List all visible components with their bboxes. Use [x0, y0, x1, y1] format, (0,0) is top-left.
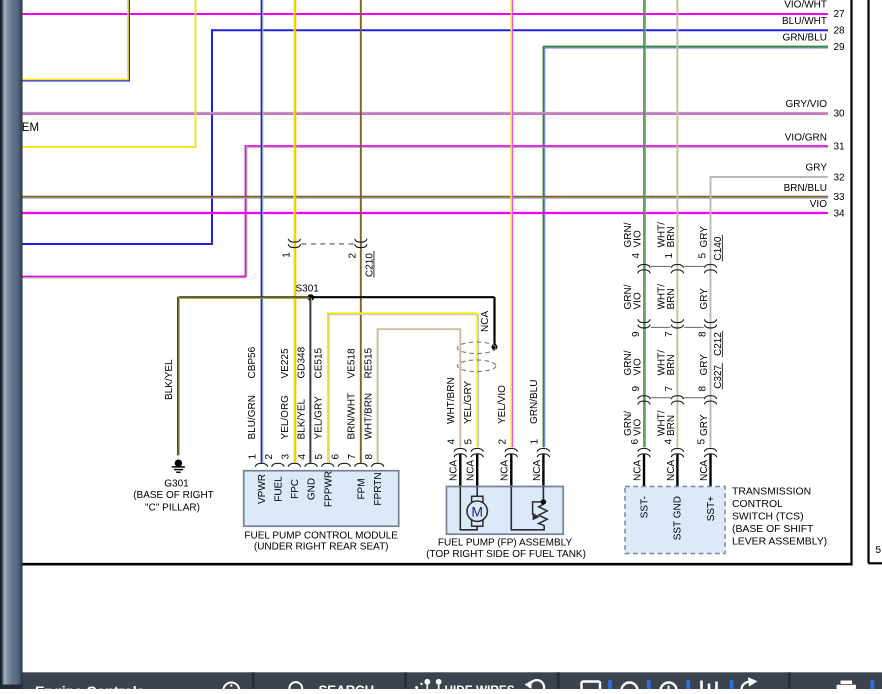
svg-text:M: M	[471, 503, 483, 519]
toolbar blue separator right edge	[871, 680, 875, 689]
wire BLK/YEL S301 to G301	[164, 297, 311, 456]
svg-text:1: 1	[664, 253, 675, 259]
svg-text:HIDE WIRES: HIDE WIRES	[445, 683, 515, 689]
svg-text:SWITCH (TCS): SWITCH (TCS)	[732, 512, 804, 523]
toolbar divider 1	[252, 672, 255, 689]
svg-text:BRN: BRN	[666, 288, 677, 309]
svg-text:4: 4	[297, 454, 308, 460]
C212-C327 segment labels	[623, 350, 710, 376]
fuel pump connector arcs, stubs, pins	[454, 448, 549, 487]
toolbar divider 2	[404, 672, 407, 689]
left scrollbar column	[0, 0, 23, 689]
svg-text:1: 1	[281, 252, 292, 258]
wire BLU/WHT circuit 28	[22, 16, 845, 245]
svg-text:2: 2	[348, 253, 359, 259]
svg-text:S301: S301	[296, 284, 320, 295]
svg-text:NCA: NCA	[500, 460, 511, 481]
wire YEL/GRY CE515 module pin 5 to FP pin 5	[327, 313, 479, 463]
wire VIO circuit 34	[22, 199, 845, 220]
fuel pump wire labels	[446, 377, 540, 424]
svg-text:4: 4	[447, 439, 458, 445]
svg-text:G301: G301	[164, 479, 189, 490]
svg-text:FPC: FPC	[290, 479, 301, 499]
transmission control switch (TCS) box	[625, 487, 725, 554]
svg-text:GRY: GRY	[699, 354, 710, 376]
wire yellow/blue pair upper-left L	[22, 0, 130, 81]
svg-text:VIO/WHT: VIO/WHT	[784, 0, 827, 11]
toolbar label Engine Controls	[35, 684, 145, 694]
wire GRY to TCS pin 5	[710, 176, 712, 447]
svg-text:NCA: NCA	[532, 460, 543, 481]
toolbar divider 3	[557, 672, 560, 689]
svg-text:30: 30	[834, 109, 846, 120]
svg-text:BLU/GRN: BLU/GRN	[247, 395, 258, 439]
svg-text:4: 4	[664, 439, 675, 445]
svg-text:GRY: GRY	[699, 226, 710, 248]
svg-text:VIO: VIO	[810, 199, 827, 210]
svg-text:9: 9	[631, 386, 642, 392]
svg-text:SST-: SST-	[639, 496, 650, 518]
connector C327	[631, 363, 724, 405]
svg-text:VIO/GRN: VIO/GRN	[785, 133, 827, 144]
svg-text:VPWR: VPWR	[257, 474, 268, 504]
svg-text:BLK/YEL: BLK/YEL	[297, 398, 308, 439]
svg-text:GRY: GRY	[806, 163, 828, 174]
wire GRN/VIO to TCS pin 6	[644, 0, 645, 447]
toolbar hide-wires icon	[415, 679, 442, 689]
svg-text:BLU/WHT: BLU/WHT	[782, 16, 827, 27]
toolbar undo icon	[525, 680, 545, 694]
svg-text:32: 32	[834, 173, 846, 184]
svg-text:(TOP RIGHT SIDE OF FUEL TANK): (TOP RIGHT SIDE OF FUEL TANK)	[426, 549, 586, 560]
svg-text:EM: EM	[22, 122, 39, 134]
wire YEL/ORG VE225 to module pin 3 via C210 pin 1	[294, 0, 295, 463]
svg-text:GRN/BLU: GRN/BLU	[529, 380, 540, 424]
svg-text:27: 27	[834, 9, 846, 20]
svg-text:BRN: BRN	[666, 415, 677, 436]
svg-text:2: 2	[498, 439, 509, 445]
wire GRY/VIO circuit 30	[22, 99, 845, 120]
svg-text:FPRTN: FPRTN	[373, 472, 384, 505]
svg-text:BRN/WHT: BRN/WHT	[347, 393, 358, 440]
svg-text:CBP56: CBP56	[247, 346, 258, 378]
wire BLU/GRN CBP56 to module pin 1	[262, 0, 263, 463]
wire BRN/WHT VE518 to module pin 7 via C210 pin 2	[360, 0, 362, 463]
svg-text:FUEL: FUEL	[274, 476, 285, 502]
svg-text:WHT/BRN: WHT/BRN	[446, 377, 457, 424]
svg-text:NCA: NCA	[466, 460, 477, 481]
toolbar printer icon	[837, 681, 857, 690]
svg-text:BRN: BRN	[666, 354, 677, 375]
svg-text:3: 3	[281, 454, 292, 460]
toolbar SEARCH text	[319, 683, 375, 694]
svg-text:FUEL PUMP (FP) ASSEMBLY: FUEL PUMP (FP) ASSEMBLY	[438, 538, 573, 549]
svg-text:NCA: NCA	[449, 460, 460, 481]
svg-text:VIO: VIO	[632, 292, 643, 309]
svg-text:RE515: RE515	[363, 347, 374, 378]
svg-text:NCA: NCA	[632, 460, 643, 481]
connector C210	[281, 239, 375, 278]
svg-text:FPM: FPM	[356, 478, 367, 499]
TCS connector arcs, stubs, pin numbers	[630, 439, 717, 488]
svg-text:34: 34	[834, 209, 846, 220]
toolbar circle icon	[622, 683, 638, 694]
svg-text:GRN/BLU: GRN/BLU	[783, 33, 827, 44]
svg-text:7: 7	[664, 386, 675, 392]
svg-text:1: 1	[248, 454, 259, 460]
svg-text:5: 5	[314, 454, 325, 460]
svg-text:YEL/GRY: YEL/GRY	[463, 381, 474, 424]
fuel pump control module box	[244, 471, 399, 553]
wire VIO/GRN circuit 31	[22, 133, 845, 278]
diagram bottom border	[22, 563, 853, 566]
svg-text:VIO: VIO	[632, 419, 643, 436]
svg-text:8: 8	[697, 386, 708, 392]
svg-text:BRN: BRN	[666, 226, 677, 247]
shield cylinder (dashed)	[457, 342, 495, 372]
svg-text:FPPWR: FPPWR	[323, 471, 334, 507]
svg-text:8: 8	[697, 331, 708, 337]
wire NCA black drain from S301 to shield	[311, 297, 498, 350]
toolbar sliders icon	[702, 681, 717, 690]
svg-text:8: 8	[364, 454, 375, 460]
svg-text:GND: GND	[307, 478, 318, 500]
svg-text:NCA: NCA	[666, 460, 677, 481]
svg-text:5: 5	[876, 545, 882, 556]
toolbar blue separator 4	[730, 680, 734, 689]
op module connector arcs pins 1-8	[255, 463, 383, 466]
wire WHT/BRN to TCS pin 4	[676, 0, 678, 447]
svg-text:TRANSMISSION: TRANSMISSION	[732, 487, 811, 498]
svg-text:Engine Controls: Engine Controls	[35, 684, 145, 689]
toolbar monitor icon	[582, 682, 601, 694]
wire BLK/YEL GD348 S301 to module pin 4	[310, 298, 311, 463]
svg-text:7: 7	[347, 454, 358, 460]
svg-text:5: 5	[697, 253, 708, 259]
svg-text:CONTROL: CONTROL	[732, 499, 783, 510]
svg-text:VIO: VIO	[632, 230, 643, 247]
svg-text:7: 7	[664, 331, 675, 337]
svg-text:LEVER ASSEMBLY): LEVER ASSEMBLY)	[732, 537, 827, 548]
svg-text:4: 4	[631, 253, 642, 259]
toolbar share icon	[742, 677, 758, 689]
svg-text:28: 28	[834, 26, 846, 37]
svg-text:31: 31	[834, 142, 846, 153]
module wire color labels	[247, 393, 374, 440]
wire YEL/VIO to FP pin 2	[511, 0, 512, 447]
toolbar blue separator 1	[608, 680, 612, 689]
svg-text:"C" PILLAR): "C" PILLAR)	[145, 503, 200, 514]
svg-text:GRY: GRY	[699, 288, 710, 310]
node S301 splice	[296, 284, 320, 301]
wire GRY circuit 32	[710, 163, 846, 184]
TCS caption text	[732, 487, 827, 548]
wire GRN/BLU circuit 29	[543, 33, 845, 448]
wire VIO/WHT circuit 27	[22, 0, 845, 20]
wire BRN/BLU circuit 33	[22, 183, 845, 203]
svg-text:SST+: SST+	[706, 496, 717, 521]
svg-text:VIO: VIO	[632, 358, 643, 375]
svg-text:9: 9	[631, 331, 642, 337]
diagram page right border	[850, 0, 852, 565]
svg-text:CE515: CE515	[313, 347, 324, 378]
svg-text:GD348: GD348	[297, 346, 308, 378]
svg-text:NCA: NCA	[699, 460, 710, 481]
bottom toolbar background	[23, 672, 882, 689]
fuel pump pin numbers	[447, 439, 541, 445]
module pin numbers 1-8	[248, 454, 375, 460]
svg-text:SEARCH: SEARCH	[319, 683, 375, 690]
svg-text:YEL/ORG: YEL/ORG	[280, 395, 291, 440]
svg-text:5: 5	[697, 439, 708, 445]
label EM (cut component name)	[22, 122, 39, 134]
motor M symbol	[460, 487, 487, 530]
fuel pump (FP) assembly box	[426, 487, 586, 561]
svg-text:GRY/VIO: GRY/VIO	[786, 99, 828, 110]
svg-text:6: 6	[630, 439, 641, 445]
adjacent page left border	[869, 0, 882, 563]
module circuit labels	[247, 346, 374, 378]
connector C140	[631, 235, 724, 273]
svg-text:YEL/GRY: YEL/GRY	[313, 396, 324, 439]
svg-text:WHT/BRN: WHT/BRN	[363, 393, 374, 440]
svg-text:GRY: GRY	[699, 414, 710, 436]
svg-text:(BASE OF RIGHT: (BASE OF RIGHT	[133, 490, 214, 501]
fuel pump NCA labels	[449, 460, 543, 481]
wire WHT/BRN RE515 module pin 8 to FP pin 4	[377, 328, 462, 462]
fuel level sender variable resistor	[511, 487, 547, 530]
svg-text:5: 5	[463, 439, 474, 445]
svg-text:VE518: VE518	[347, 348, 358, 378]
svg-text:(BASE OF SHIFT: (BASE OF SHIFT	[732, 524, 814, 535]
TCS lower wire labels	[623, 410, 710, 436]
ground G301	[133, 460, 214, 514]
svg-text:1: 1	[530, 439, 541, 445]
svg-text:(UNDER RIGHT REAR SEAT): (UNDER RIGHT REAR SEAT)	[254, 542, 389, 553]
C140 upper wire labels	[623, 222, 710, 248]
toolbar divider 4	[788, 672, 791, 689]
svg-text:SST GND: SST GND	[673, 496, 684, 540]
C140-C212 segment labels	[623, 284, 710, 310]
svg-text:6: 6	[331, 454, 342, 460]
svg-text:YEL/VIO: YEL/VIO	[497, 385, 508, 424]
svg-text:2: 2	[264, 454, 275, 460]
svg-text:33: 33	[834, 192, 846, 203]
toolbar blue separator 2	[647, 680, 651, 689]
wire yellow mid-left L	[22, 0, 196, 148]
svg-text:29: 29	[834, 42, 846, 53]
svg-text:NCA: NCA	[480, 311, 491, 332]
connector C212	[631, 319, 724, 357]
svg-text:FUEL PUMP CONTROL MODULE: FUEL PUMP CONTROL MODULE	[244, 531, 398, 542]
svg-text:BLK/YEL: BLK/YEL	[164, 359, 175, 400]
toolbar HIDE WIRES text	[445, 683, 515, 694]
toolbar search icon	[289, 682, 302, 694]
svg-text:BRN/BLU: BRN/BLU	[784, 183, 827, 194]
svg-text:VE225: VE225	[280, 348, 291, 378]
toolbar blue separator 3	[686, 680, 690, 689]
toolbar info icon	[223, 683, 239, 694]
toolbar alert icon	[661, 683, 677, 694]
